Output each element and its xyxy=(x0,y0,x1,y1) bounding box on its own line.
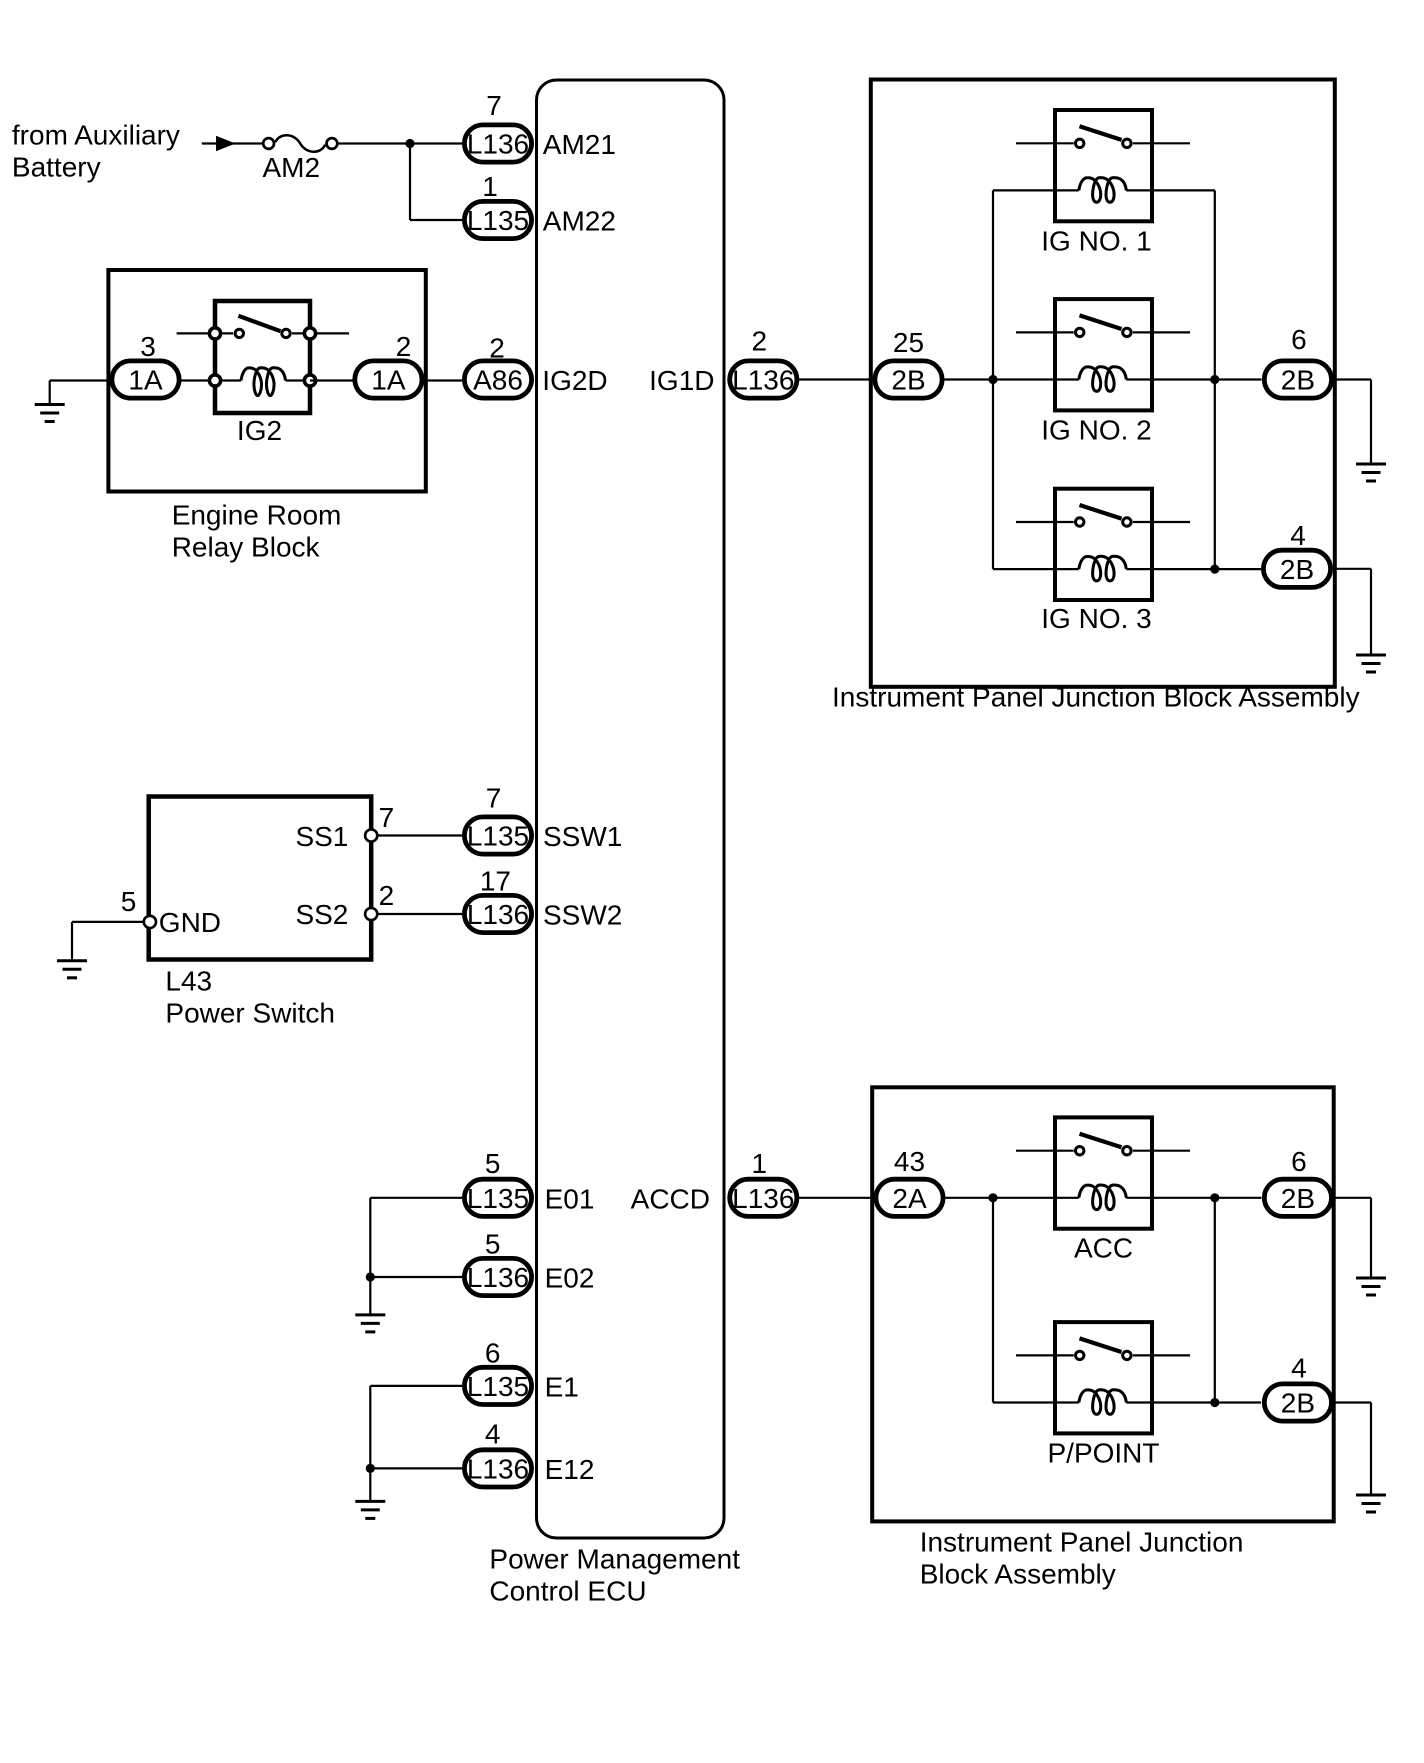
svg-text:IG2: IG2 xyxy=(237,415,282,446)
wire E01/E02 to ground xyxy=(370,1198,462,1315)
wire 2B pin 4 to ground (bottom block) xyxy=(1334,1403,1371,1496)
svg-text:IG NO. 1: IG NO. 1 xyxy=(1041,225,1151,256)
svg-text:L136: L136 xyxy=(467,129,529,160)
relay IG NO. 2 switch stub wires xyxy=(1016,331,1190,333)
wire ACCD to instrument panel junction block 2A pin 43 xyxy=(799,1197,875,1199)
wire relay IG2 to connector 1A pin 2 xyxy=(310,379,353,381)
svg-text:P/POINT: P/POINT xyxy=(1047,1437,1159,1468)
svg-text:E1: E1 xyxy=(545,1371,579,1402)
connector L135 pin 1 terminal AM22 xyxy=(464,171,531,239)
left bus vertical wire (bottom block) xyxy=(992,1198,994,1403)
connector 2A pin 43 xyxy=(876,1146,943,1216)
wire ground to connector 1A pin 3 xyxy=(50,381,110,405)
svg-text:Engine Room: Engine Room xyxy=(172,500,342,531)
svg-text:43: 43 xyxy=(894,1146,925,1177)
svg-text:5: 5 xyxy=(485,1148,501,1179)
svg-text:IG NO. 3: IG NO. 3 xyxy=(1041,603,1151,634)
pin circle SS2 xyxy=(365,908,377,920)
svg-text:2: 2 xyxy=(379,880,395,911)
relay IG NO. 3 box xyxy=(1055,489,1152,600)
relay P/POINT switch blade xyxy=(1080,1338,1122,1352)
ground at 2B pin 4 (top block) xyxy=(1356,655,1386,672)
svg-text:7: 7 xyxy=(379,802,395,833)
relay P/POINT coil xyxy=(1055,1390,1152,1415)
svg-text:2B: 2B xyxy=(1280,554,1314,585)
relay ACC box xyxy=(1055,1117,1152,1228)
ground at power switch xyxy=(57,961,87,978)
connector L136 pin 1 terminal ACCD xyxy=(730,1148,797,1217)
wire from battery arrow to fuse AM2 xyxy=(202,142,262,144)
wire IG1D to instrument panel junction block 2B pin 25 xyxy=(799,378,873,380)
ground at engine room relay block xyxy=(35,405,65,422)
junction on right bus at IG NO. 2 row xyxy=(1210,375,1219,384)
ground at 2B pin 4 (bottom block) xyxy=(1356,1495,1386,1512)
Instrument Panel Junction Block Assembly box (bottom) xyxy=(872,1087,1333,1521)
wire E1/E12 to ground xyxy=(370,1386,462,1502)
relay IG NO. 2 box xyxy=(1055,299,1152,410)
right bus vertical wire (bottom block) xyxy=(1214,1198,1216,1403)
svg-text:A86: A86 xyxy=(473,365,523,396)
ground at E1/E12 xyxy=(355,1501,385,1518)
svg-text:Instrument Panel Junction: Instrument Panel Junction xyxy=(920,1527,1244,1558)
svg-text:Relay Block: Relay Block xyxy=(172,532,321,563)
svg-text:from Auxiliary: from Auxiliary xyxy=(12,120,180,151)
svg-text:SS1: SS1 xyxy=(295,821,348,852)
left bus vertical wire (top block) xyxy=(992,190,994,569)
wire SS1 to connector L135 SSW1 xyxy=(377,834,462,836)
svg-text:L135: L135 xyxy=(467,1183,529,1214)
svg-text:1: 1 xyxy=(752,1148,768,1179)
Instrument Panel Junction Block Assembly box (top) xyxy=(871,80,1335,687)
svg-text:L136: L136 xyxy=(467,899,529,930)
svg-text:L136: L136 xyxy=(732,365,794,396)
relay IG NO. 1 switch stub wires xyxy=(1016,142,1190,144)
connector 2B pin 25 xyxy=(875,327,942,398)
relay IG NO. 1 coil xyxy=(1055,178,1152,203)
relay IG NO. 3 switch stub wires xyxy=(1016,521,1190,523)
svg-text:7: 7 xyxy=(486,783,502,814)
relay ACC switch contacts xyxy=(1076,1147,1132,1155)
svg-text:6: 6 xyxy=(485,1338,501,1369)
Engine Room Relay Block caption xyxy=(172,500,342,563)
svg-text:2: 2 xyxy=(752,326,768,357)
Engine Room Relay Block box xyxy=(108,270,425,492)
svg-text:IG1D: IG1D xyxy=(649,365,714,396)
svg-text:2B: 2B xyxy=(1281,1183,1315,1214)
ground at 2B pin 6 (bottom block) xyxy=(1356,1278,1386,1295)
relay IG NO. 1 box xyxy=(1055,110,1152,221)
svg-text:6: 6 xyxy=(1291,1146,1307,1177)
svg-text:2B: 2B xyxy=(891,365,925,396)
wire fuse to node A and connector L136 xyxy=(337,142,462,144)
svg-text:L135: L135 xyxy=(467,1371,529,1402)
relay P/POINT switch contacts xyxy=(1076,1351,1132,1359)
wire SS2 to connector L136 SSW2 xyxy=(377,913,462,915)
relay IG NO. 3 coil xyxy=(1055,556,1152,581)
svg-text:7: 7 xyxy=(486,90,502,121)
svg-text:L43: L43 xyxy=(165,966,212,997)
relay IG NO. 1 switch contacts xyxy=(1076,139,1132,147)
wire left bus to relay P/POINT coil xyxy=(993,1401,1055,1403)
wire right bus to connector 2B pin 6 (bottom) xyxy=(1152,1197,1262,1199)
svg-text:SSW2: SSW2 xyxy=(543,900,622,931)
svg-text:4: 4 xyxy=(1291,1353,1307,1384)
ECU caption xyxy=(489,1544,740,1607)
svg-text:25: 25 xyxy=(893,327,924,358)
svg-text:Block Assembly: Block Assembly xyxy=(920,1559,1116,1590)
wire right bus to connector 2B pin 4 (bottom) xyxy=(1152,1401,1261,1403)
svg-text:IG2D: IG2D xyxy=(542,365,607,396)
svg-text:Control ECU: Control ECU xyxy=(489,1576,646,1607)
svg-text:6: 6 xyxy=(1291,324,1307,355)
svg-text:GND: GND xyxy=(159,907,221,938)
svg-text:3: 3 xyxy=(140,331,156,362)
power switch caption L43 Power Switch xyxy=(165,966,335,1029)
svg-text:E01: E01 xyxy=(545,1183,595,1214)
junction on right bus at ACC row xyxy=(1210,1193,1219,1202)
wire left bus to relay IG NO. 3 coil xyxy=(993,568,1055,570)
junction on left bus at IG NO. 2 row xyxy=(988,375,997,384)
svg-text:2A: 2A xyxy=(892,1183,927,1214)
connector L136 pin 4 terminal E12 xyxy=(464,1419,531,1488)
relay IG2 box xyxy=(215,301,310,413)
wire relay IG NO. 1 coil to right bus xyxy=(1152,189,1215,191)
svg-text:Power Management: Power Management xyxy=(489,1544,740,1575)
svg-text:5: 5 xyxy=(121,886,137,917)
relay IG2 edge pin circles xyxy=(209,328,315,386)
svg-text:IG NO. 2: IG NO. 2 xyxy=(1041,414,1151,445)
relay ACC switch stub wires xyxy=(1016,1150,1190,1152)
svg-text:SSW1: SSW1 xyxy=(543,821,622,852)
power switch L43 box xyxy=(149,797,372,960)
wire 1A pin 3 to relay IG2 coil xyxy=(181,379,217,381)
wire 1A pin 2 to connector A86 xyxy=(425,379,463,381)
ground at E01/E02 xyxy=(355,1315,385,1332)
svg-text:ACCD: ACCD xyxy=(631,1183,710,1214)
connector L135 pin 7 terminal SSW1 xyxy=(464,783,531,855)
svg-text:E02: E02 xyxy=(545,1263,595,1294)
connector 1A pin 2 xyxy=(355,331,422,398)
relay P/POINT box xyxy=(1055,1322,1152,1433)
connector L136 pin 2 terminal IG1D xyxy=(730,326,797,399)
relay IG NO. 2 switch contacts xyxy=(1076,328,1132,336)
svg-text:L136: L136 xyxy=(467,1262,529,1293)
svg-text:17: 17 xyxy=(480,866,511,897)
svg-text:Battery: Battery xyxy=(12,152,101,183)
svg-text:E12: E12 xyxy=(545,1454,595,1485)
junction at E12 wire xyxy=(366,1464,375,1473)
junction on right bus at P/POINT row xyxy=(1210,1398,1219,1407)
right bus vertical wire (top block) xyxy=(1214,190,1216,569)
wire 2B pin 4 to ground (top block) xyxy=(1333,569,1371,655)
wire 2A pin 43 to relay ACC xyxy=(946,1197,1056,1199)
caption Instrument Panel Junction Block Assembly (bottom) xyxy=(920,1527,1244,1590)
svg-text:5: 5 xyxy=(485,1229,501,1260)
connector 2B pin 4 (bottom block) xyxy=(1264,1353,1331,1422)
relay IG2 switch blade xyxy=(238,316,280,331)
svg-text:L135: L135 xyxy=(467,205,529,236)
wire left bus to relay IG NO. 1 coil xyxy=(993,189,1055,191)
ECU body: Power Management Control ECU xyxy=(537,80,725,1538)
junction node A on AM2 wire xyxy=(405,139,414,148)
svg-text:ACC: ACC xyxy=(1074,1232,1133,1263)
connector L135 pin 6 terminal E1 xyxy=(464,1338,531,1405)
svg-text:1: 1 xyxy=(482,171,498,202)
relay IG NO. 2 coil xyxy=(1055,367,1152,392)
svg-text:1A: 1A xyxy=(128,365,163,396)
relay ACC switch blade xyxy=(1080,1134,1122,1148)
wire node A down to L135 AM22 xyxy=(410,144,462,221)
ground at 2B pin 6 (top block) xyxy=(1356,464,1386,481)
relay IG2 switch contacts xyxy=(235,329,290,337)
wire 2B pin 6 to ground (top block) xyxy=(1334,380,1371,465)
svg-text:4: 4 xyxy=(1290,520,1306,551)
wire right bus to connector 2B pin 6 xyxy=(1152,378,1262,380)
svg-text:2: 2 xyxy=(489,333,505,364)
battery feed arrow xyxy=(216,136,236,151)
svg-text:L136: L136 xyxy=(467,1453,529,1484)
svg-text:Instrument Panel Junction Bloc: Instrument Panel Junction Block Assembly xyxy=(832,682,1360,713)
wire right bus to connector 2B pin 4 xyxy=(1152,568,1261,570)
connector L136 pin 17 terminal SSW2 xyxy=(464,866,531,933)
svg-text:2B: 2B xyxy=(1281,1388,1315,1419)
relay IG NO. 2 switch blade xyxy=(1080,315,1122,329)
svg-text:SS2: SS2 xyxy=(295,899,348,930)
relay IG2 coil xyxy=(222,368,303,396)
svg-text:Power Switch: Power Switch xyxy=(165,998,335,1029)
connector L136 pin 5 terminal E02 xyxy=(464,1229,531,1296)
connector L136 pin 7 terminal AM21 xyxy=(464,90,531,162)
junction on left bus at ACC row xyxy=(988,1193,997,1202)
connector A86 pin 2 terminal IG2D xyxy=(464,333,531,399)
relay IG2 switch stub wires xyxy=(177,332,349,334)
connector 2B pin 4 (top block) xyxy=(1263,520,1330,587)
wire GND to ground xyxy=(72,922,144,961)
connector L135 pin 5 terminal E01 xyxy=(464,1148,531,1216)
pin circle GND xyxy=(144,916,156,928)
relay IG NO. 3 switch contacts xyxy=(1076,518,1132,526)
connector 1A pin 3 xyxy=(112,331,179,398)
svg-text:4: 4 xyxy=(485,1419,501,1450)
wire 2B pin 25 to relay IG NO. 2 xyxy=(945,378,1056,380)
svg-text:L136: L136 xyxy=(732,1183,794,1214)
connector 2B pin 6 (bottom block) xyxy=(1264,1146,1331,1216)
svg-text:AM2: AM2 xyxy=(263,152,321,183)
svg-text:2: 2 xyxy=(396,331,412,362)
relay IG NO. 3 switch blade xyxy=(1080,505,1122,519)
svg-text:AM21: AM21 xyxy=(543,129,616,160)
junction at E02 wire xyxy=(366,1272,375,1281)
svg-text:AM22: AM22 xyxy=(543,206,616,237)
svg-text:1A: 1A xyxy=(371,365,406,396)
junction on right bus at IG NO. 3 row xyxy=(1210,565,1219,574)
relay ACC coil xyxy=(1055,1185,1152,1210)
wire 2B pin 6 to ground (bottom block) xyxy=(1334,1198,1371,1278)
svg-text:L135: L135 xyxy=(467,821,529,852)
connector 2B pin 6 (top block) xyxy=(1264,324,1331,398)
relay P/POINT switch stub wires xyxy=(1016,1354,1190,1356)
fuse AM2 xyxy=(263,135,337,151)
relay IG NO. 1 switch blade xyxy=(1080,126,1122,140)
net label: from Auxiliary Battery xyxy=(12,120,180,183)
pin circle SS1 xyxy=(365,829,377,841)
svg-text:2B: 2B xyxy=(1281,365,1315,396)
